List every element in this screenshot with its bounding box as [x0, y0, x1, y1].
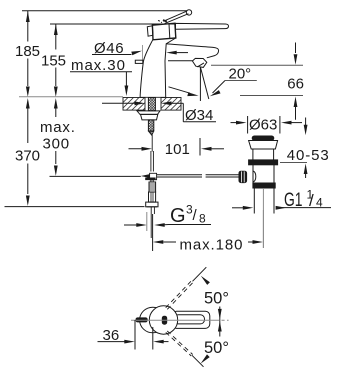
drain centerline	[262, 188, 264, 248]
dimension max300 line	[55, 108, 57, 117]
top reference line (lever top level)	[22, 10, 187, 12]
20 degree angle slanted line	[200, 67, 208, 99]
bottom view centerline	[131, 319, 219, 321]
50 deg vertical dim line	[219, 307, 221, 337]
threaded shank lower	[148, 120, 153, 131]
counter deck hatched right	[161, 98, 181, 111]
dimension 155 line	[55, 25, 57, 50]
pull-rod knob at back	[135, 60, 143, 63]
drain body	[253, 165, 274, 183]
lever slot	[162, 316, 166, 324]
svg-text:Ø63: Ø63	[249, 116, 277, 133]
faucet axis line lower	[151, 135, 153, 152]
faucet lever knob	[186, 10, 191, 15]
spout bar top view	[172, 311, 210, 328]
svg-text:20°: 20°	[229, 66, 252, 83]
max180 left extension line	[152, 214, 154, 251]
locknut	[141, 114, 158, 120]
50 deg bottom leader	[201, 354, 210, 363]
mounting surface reference line right	[240, 95, 303, 97]
svg-text:8: 8	[199, 212, 206, 226]
faucet cartridge head	[152, 23, 175, 40]
svg-text:300: 300	[43, 136, 70, 153]
svg-text:G: G	[170, 205, 186, 227]
svg-text:max.: max.	[40, 119, 76, 136]
drain lower nut dark band	[253, 183, 275, 188]
dimension 66	[295, 43, 297, 54]
dimension 40-53	[305, 118, 307, 126]
washer under deck	[137, 111, 160, 115]
lever knob top view	[136, 318, 147, 322]
faucet lever diagonal	[163, 11, 186, 21]
counter deck hatched left	[123, 98, 145, 111]
bottom reference line (370 datum)	[5, 206, 145, 208]
dimension 185 line	[27, 11, 29, 42]
threaded shank through deck	[148, 98, 155, 111]
faucet spout	[166, 44, 218, 58]
max300 reference line (hose level)	[50, 175, 141, 177]
svg-text:/: /	[193, 207, 198, 224]
svg-text:max.180: max.180	[180, 236, 244, 253]
svg-text:Ø34: Ø34	[185, 107, 213, 124]
supply rod lower	[150, 207, 152, 238]
faucet lever horizontal rod	[176, 23, 229, 29]
G3/8 extension line grey	[146, 212, 148, 231]
svg-text:370: 370	[15, 148, 40, 165]
svg-text:66: 66	[287, 76, 304, 93]
50 deg top leader	[201, 276, 210, 285]
horizontal pull rod	[156, 174, 202, 176]
pull rod joint at faucet axis	[141, 174, 151, 178]
dimension 101	[129, 148, 146, 150]
faucet body column	[140, 40, 153, 98]
svg-text:101: 101	[165, 141, 190, 158]
drain neck	[253, 149, 274, 160]
arrowheads left dims	[26, 11, 58, 206]
dashed swivel line up	[167, 282, 193, 309]
body base ellipse	[140, 307, 166, 333]
svg-text:185: 185	[15, 43, 40, 60]
svg-text:50°: 50°	[204, 339, 229, 357]
dashed swivel line down	[166, 332, 192, 356]
cartridge circle	[149, 306, 177, 334]
second reference line (handle rod top level)	[50, 23, 176, 25]
svg-text:155: 155	[41, 53, 66, 70]
dimension 370 line	[27, 108, 29, 143]
svg-text:40-53: 40-53	[287, 147, 330, 164]
svg-text:50°: 50°	[204, 290, 229, 308]
mounting surface reference line left	[19, 96, 123, 98]
spout outlet reference line	[211, 64, 303, 66]
drain tailpipe	[254, 188, 274, 214]
faucet spout aerator beak	[192, 58, 206, 67]
supply connector fitting stack	[146, 178, 155, 180]
drain locknut ring	[249, 160, 278, 165]
20 degree angle vertical line	[199, 67, 201, 101]
drain ball-rod knob	[239, 171, 247, 182]
drain pop-up plug	[252, 136, 274, 140]
drain flange	[249, 141, 278, 150]
